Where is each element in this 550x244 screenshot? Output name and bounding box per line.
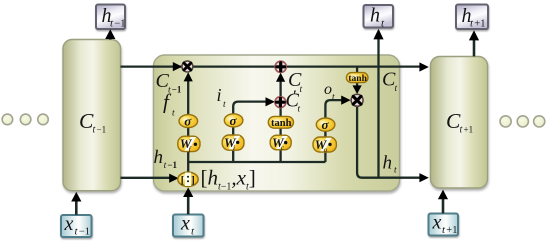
svg-text:o: o xyxy=(324,145,328,154)
label C'(t) xyxy=(286,89,301,115)
wire: output gate branch xyxy=(325,96,350,163)
svg-text:x: x xyxy=(180,213,190,235)
arrow x(t+1) to block xyxy=(438,190,448,214)
svg-text:′: ′ xyxy=(293,89,297,104)
gate: candidate tanh xyxy=(268,116,293,129)
svg-text:σ: σ xyxy=(322,117,330,132)
svg-text:t: t xyxy=(460,125,463,136)
svg-text:−1: −1 xyxy=(79,227,90,238)
wire: input gate branch xyxy=(233,97,275,162)
svg-text:x: x xyxy=(64,213,74,235)
svg-text:i: i xyxy=(217,85,222,105)
svg-text:h: h xyxy=(370,5,380,27)
svg-text:i: i xyxy=(233,143,235,152)
LSTM cell body xyxy=(154,55,400,191)
svg-text:t: t xyxy=(300,85,303,95)
wire: h(t) output path xyxy=(357,106,429,182)
gate: weight Wo xyxy=(313,137,336,154)
gate: weight Wi xyxy=(222,135,244,152)
node: candidate add xyxy=(275,97,286,108)
svg-text:t: t xyxy=(172,109,175,119)
block C_{t+1} xyxy=(431,57,488,189)
svg-text:−1: −1 xyxy=(167,160,177,170)
label f(t) xyxy=(163,90,175,119)
arrow x(t) to concat xyxy=(183,187,193,214)
svg-text:−1: −1 xyxy=(97,125,107,135)
box h(t-1) output xyxy=(96,5,125,30)
label C(t) right xyxy=(382,69,398,95)
box x(t) input xyxy=(173,213,204,238)
svg-text:+1: +1 xyxy=(474,19,485,30)
gate: sigma f xyxy=(179,114,198,129)
arrow to h(t+1) box xyxy=(469,30,479,56)
svg-text:t: t xyxy=(332,93,335,103)
wire: weight bus xyxy=(188,161,325,163)
svg-text:σ: σ xyxy=(230,113,238,128)
svg-text:+1: +1 xyxy=(446,225,457,236)
label o(t) xyxy=(324,81,335,103)
svg-text:−1: −1 xyxy=(114,19,125,30)
gate: weight Wf xyxy=(178,136,200,153)
svg-text:t: t xyxy=(164,161,167,171)
svg-text:x: x xyxy=(432,212,442,234)
wire: h(t) branch up to output box xyxy=(373,29,383,178)
svg-text:]: ] xyxy=(191,176,195,187)
gate: sigma o xyxy=(316,117,335,132)
svg-text:t: t xyxy=(93,125,96,136)
wire: cell state line C xyxy=(121,62,429,72)
wire: tanh to output multiply xyxy=(353,82,362,94)
svg-text:t: t xyxy=(394,166,397,176)
label C(t) after add xyxy=(288,69,303,95)
svg-text:tanh: tanh xyxy=(348,74,367,84)
svg-text:t: t xyxy=(395,84,398,94)
label i(t) xyxy=(217,85,227,110)
box x(t+1) input xyxy=(429,212,459,237)
node: cell state add xyxy=(275,61,286,72)
svg-text:o: o xyxy=(324,81,332,98)
arrow to h(t-1) box xyxy=(105,29,115,39)
gate: weight Wc xyxy=(270,135,291,152)
svg-text:h: h xyxy=(154,147,164,168)
block C_{t-1} xyxy=(63,40,121,191)
svg-text:σ: σ xyxy=(184,114,192,129)
gate: output tanh xyxy=(346,73,368,85)
wire: concat vertical to forget multiply xyxy=(184,72,193,173)
svg-text:−1: −1 xyxy=(172,84,182,94)
node: output multiply xyxy=(351,94,363,106)
svg-text:tanh: tanh xyxy=(271,118,292,129)
arrow x(t-1) to block xyxy=(71,192,81,215)
wire: h(t-1) input line xyxy=(121,174,179,183)
ellipsis dots left xyxy=(2,114,48,125)
label h(t-1) in cell xyxy=(154,147,178,171)
node: forget gate multiply xyxy=(182,61,193,72)
svg-text:+1: +1 xyxy=(464,125,474,135)
svg-text:h: h xyxy=(383,153,393,174)
svg-text:[: [ xyxy=(181,176,185,187)
label C(t-1) in cell xyxy=(156,70,182,95)
svg-text:W: W xyxy=(180,136,193,151)
node: concat xyxy=(178,172,198,186)
wire: tanh stub from cell line xyxy=(356,67,358,73)
box h(t+1) output xyxy=(456,5,488,30)
wire: candidate branch xyxy=(276,73,285,162)
box x(t-1) input xyxy=(61,213,92,238)
label h(t) in cell xyxy=(383,153,398,176)
label concat vector xyxy=(201,166,256,193)
ellipsis dots right xyxy=(500,116,545,127)
svg-text:t: t xyxy=(298,105,301,115)
gate: sigma i xyxy=(224,113,243,128)
svg-text:t: t xyxy=(223,100,226,110)
box h(t) output xyxy=(364,5,394,30)
